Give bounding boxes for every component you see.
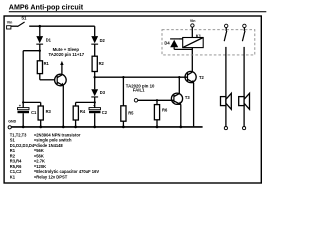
svg-text:C1,C2: C1,C2 [10, 169, 22, 174]
svg-text:D4: D4 [164, 41, 170, 46]
svg-text:R1: R1 [44, 61, 50, 66]
svg-text:T3: T3 [185, 95, 191, 100]
svg-text:=Relay 12v DPST: =Relay 12v DPST [34, 174, 68, 179]
svg-text:T1,T2,T3: T1,T2,T3 [10, 132, 27, 137]
svg-text:TA2020 pin 11+17: TA2020 pin 11+17 [49, 52, 85, 57]
svg-text:=56K: =56K [34, 148, 44, 153]
svg-text:D3: D3 [100, 90, 106, 95]
svg-text:R2: R2 [10, 153, 16, 158]
svg-text:C2: C2 [102, 110, 108, 115]
svg-text:D1,D2,D3,D4: D1,D2,D3,D4 [10, 143, 35, 148]
svg-text:R3: R3 [46, 109, 52, 114]
svg-text:T2: T2 [199, 75, 205, 80]
svg-text:=120K: =120K [34, 164, 46, 169]
svg-text:Vin: Vin [190, 19, 196, 23]
svg-text:D2: D2 [100, 38, 106, 43]
svg-text:R4: R4 [80, 109, 86, 114]
svg-text:R5,R6: R5,R6 [10, 164, 22, 169]
svg-text:=56K: =56K [34, 153, 44, 158]
svg-text:R3,R4: R3,R4 [10, 159, 22, 164]
svg-text:K1: K1 [196, 33, 202, 38]
svg-text:=diode 1N4148: =diode 1N4148 [34, 143, 64, 148]
svg-text:S1: S1 [10, 138, 16, 143]
svg-text:R6: R6 [162, 107, 168, 112]
svg-text:Vin: Vin [7, 20, 13, 24]
svg-text:=Electrolytic capacitor 470uF: =Electrolytic capacitor 470uF 16V [34, 169, 99, 174]
svg-text:S1: S1 [21, 15, 27, 20]
svg-text:=single pole switch: =single pole switch [34, 138, 72, 143]
svg-text:=2.7K: =2.7K [34, 159, 45, 164]
svg-text:K1: K1 [10, 174, 16, 179]
svg-text:R1: R1 [10, 148, 16, 153]
svg-text:D1: D1 [46, 38, 52, 43]
svg-text:R2: R2 [99, 61, 105, 66]
svg-text:R5: R5 [128, 110, 134, 115]
svg-text:GND: GND [8, 120, 16, 124]
svg-text:FAIL1: FAIL1 [133, 88, 145, 93]
svg-text:=2N3904 NPN transistor: =2N3904 NPN transistor [34, 132, 81, 137]
svg-text:AMP6 Anti-pop circuit: AMP6 Anti-pop circuit [9, 3, 84, 11]
svg-text:C1: C1 [31, 110, 37, 115]
